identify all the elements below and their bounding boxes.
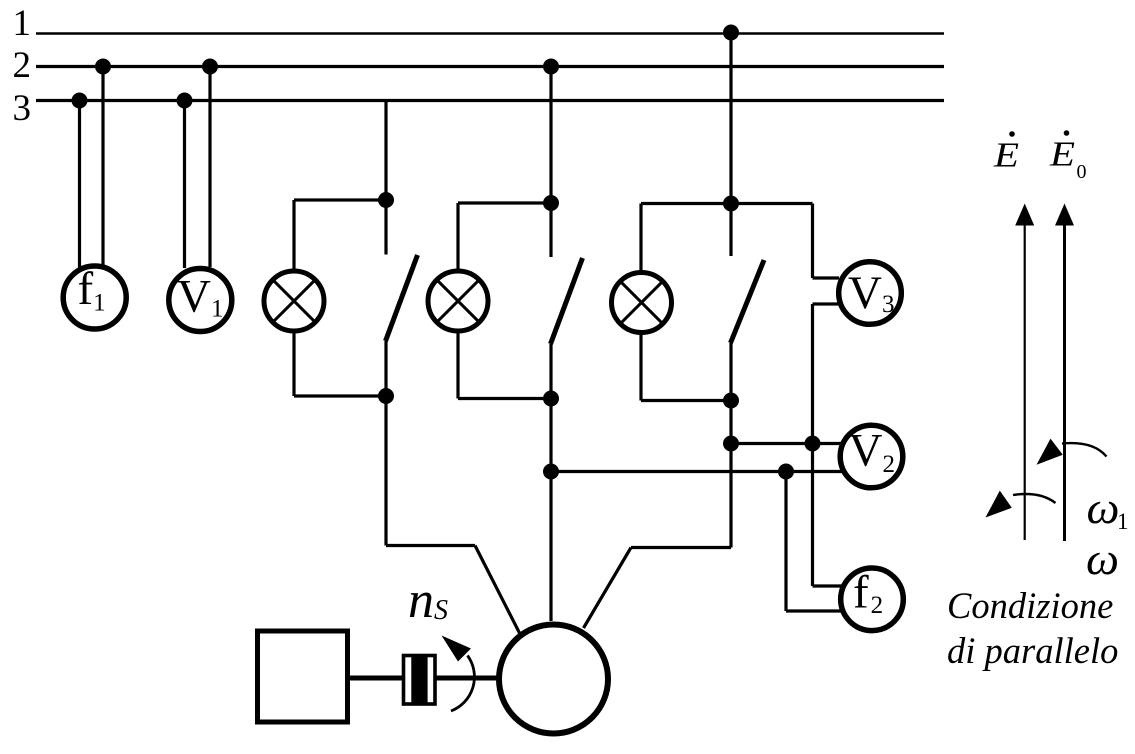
svg-text:di parallelo: di parallelo bbox=[947, 630, 1118, 671]
svg-text:ω: ω bbox=[1086, 533, 1119, 584]
svg-text:1: 1 bbox=[1117, 509, 1129, 534]
wire generator phase A horizontal bbox=[386, 544, 475, 547]
lamp L3 bbox=[612, 273, 672, 333]
wire generator phase A diagonal bbox=[475, 546, 520, 635]
wire V1 right lead bbox=[208, 67, 211, 268]
bus line 3 bbox=[36, 99, 944, 102]
wire generator phase C horizontal bbox=[631, 546, 731, 549]
svg-text:V1: V1 bbox=[177, 271, 223, 323]
wire V3 top lead into meter bbox=[813, 276, 840, 279]
wire f2 lower lead vertical bbox=[784, 472, 787, 612]
meter f2 bbox=[841, 568, 904, 631]
phasor E0 shaft bbox=[1063, 224, 1066, 541]
node dot on bus3 at V1 bbox=[177, 93, 193, 109]
curved arrow lower head bbox=[986, 491, 1012, 518]
node dot branch3 bottom bbox=[723, 393, 739, 409]
meter V3 bbox=[839, 262, 902, 325]
node dot branch2 top bbox=[543, 195, 559, 211]
wire lamp1 bottom lead bbox=[292, 332, 295, 396]
node dot branch3 tap bbox=[723, 436, 739, 452]
wire f2 lower lead into meter bbox=[786, 609, 841, 612]
svg-text:V3: V3 bbox=[848, 267, 894, 319]
svg-text:ω: ω bbox=[1087, 482, 1120, 533]
svg-text:f2: f2 bbox=[853, 567, 883, 620]
node dot f2 tap bbox=[778, 464, 794, 480]
bus line 2 bbox=[36, 65, 944, 68]
svg-text:E: E bbox=[993, 136, 1019, 175]
curved arrow upper head bbox=[1037, 439, 1063, 465]
node dot on bus1 branch3 bbox=[723, 25, 739, 41]
wire V3 top lead horizontal bbox=[731, 202, 813, 205]
meter V2 bbox=[840, 425, 903, 488]
node dot branch1 bottom bbox=[378, 388, 394, 404]
shaft right segment bbox=[437, 676, 500, 681]
svg-text:3: 3 bbox=[13, 88, 32, 129]
svg-text:nS: nS bbox=[408, 572, 448, 629]
wire branch3 bottom horizontal bbox=[641, 399, 731, 402]
rotation arrow arc bbox=[451, 656, 474, 712]
prime mover box bbox=[258, 631, 348, 722]
wire f1 left lead bbox=[78, 101, 81, 269]
svg-text:0: 0 bbox=[1077, 161, 1087, 183]
wire f2 upper lead into meter bbox=[813, 584, 842, 587]
wire V3 bottom lead into meter bbox=[813, 302, 839, 305]
node dot branch2 bottom bbox=[543, 391, 559, 407]
wire generator phase C diagonal bbox=[584, 548, 632, 629]
svg-text:E: E bbox=[1049, 135, 1075, 174]
lamp L2 bbox=[428, 271, 488, 331]
wire branch1 bottom horizontal bbox=[294, 394, 386, 397]
wire lamp2 bottom lead bbox=[456, 332, 459, 399]
curved arrow upper (omega1) arc bbox=[1062, 443, 1107, 456]
wire lamp3 top lead bbox=[639, 204, 642, 272]
node dot branch1 top bbox=[378, 192, 394, 208]
wire branch1 top horizontal bbox=[294, 198, 386, 201]
wire branch3 drop from bus1 bbox=[729, 34, 732, 257]
phasor E arrowhead bbox=[1015, 204, 1034, 226]
svg-text:f1: f1 bbox=[78, 263, 106, 317]
wire branch1 bottom vertical bbox=[384, 341, 387, 546]
svg-text:2: 2 bbox=[13, 45, 32, 86]
svg-text:Condizione: Condizione bbox=[947, 585, 1113, 626]
shaft left segment bbox=[349, 676, 402, 681]
wire f1 right lead bbox=[101, 67, 104, 266]
wire branch2 top horizontal bbox=[458, 201, 551, 204]
node dot on bus2 branch2 bbox=[543, 59, 559, 75]
wire branch2 bottom vertical bbox=[549, 344, 552, 621]
node dot on bus2 at f1 bbox=[95, 59, 111, 75]
node dot branch3 top bbox=[723, 196, 739, 212]
wire V3 top lead vertical bbox=[811, 204, 814, 279]
switch S1 blade bbox=[386, 255, 418, 341]
coupling bbox=[404, 656, 436, 705]
node dot on V2 top wire bbox=[805, 436, 821, 452]
bus line 1 bbox=[36, 32, 944, 34]
lamp L1 bbox=[264, 271, 324, 331]
wire branch2 drop from bus2 bbox=[549, 67, 552, 258]
wire V3 bottom lead vertical bbox=[811, 304, 814, 586]
meter V1 bbox=[169, 269, 232, 332]
wire V2 bottom horizontal (long) bbox=[551, 470, 842, 473]
phasor E0 arrowhead bbox=[1055, 204, 1074, 226]
wire branch3 bottom vertical bbox=[729, 343, 732, 548]
rotation arrow head bbox=[442, 636, 472, 662]
svg-text:1: 1 bbox=[13, 3, 32, 44]
meter f1 bbox=[63, 266, 126, 329]
node dot on bus3 at f1 bbox=[72, 93, 88, 109]
node dot branch2 tap bbox=[543, 464, 559, 480]
generator G bbox=[499, 625, 608, 734]
wire lamp3 bottom lead bbox=[639, 334, 642, 401]
switch S3 blade bbox=[731, 260, 765, 343]
wire branch2 bottom horizontal bbox=[458, 397, 551, 400]
curved arrow lower (omega) arc bbox=[1013, 494, 1056, 503]
wire branch3 top horizontal bbox=[641, 202, 731, 205]
switch S2 blade bbox=[551, 258, 583, 344]
phasor E shaft bbox=[1024, 224, 1026, 540]
wire V2 top horizontal bbox=[731, 442, 841, 445]
wire lamp1 top lead bbox=[292, 200, 295, 270]
node dot on bus2 at V1 bbox=[202, 59, 218, 75]
wire branch1 drop from bus3 bbox=[384, 101, 387, 255]
wire V1 left lead bbox=[183, 101, 186, 269]
wire lamp2 top lead bbox=[456, 203, 459, 270]
